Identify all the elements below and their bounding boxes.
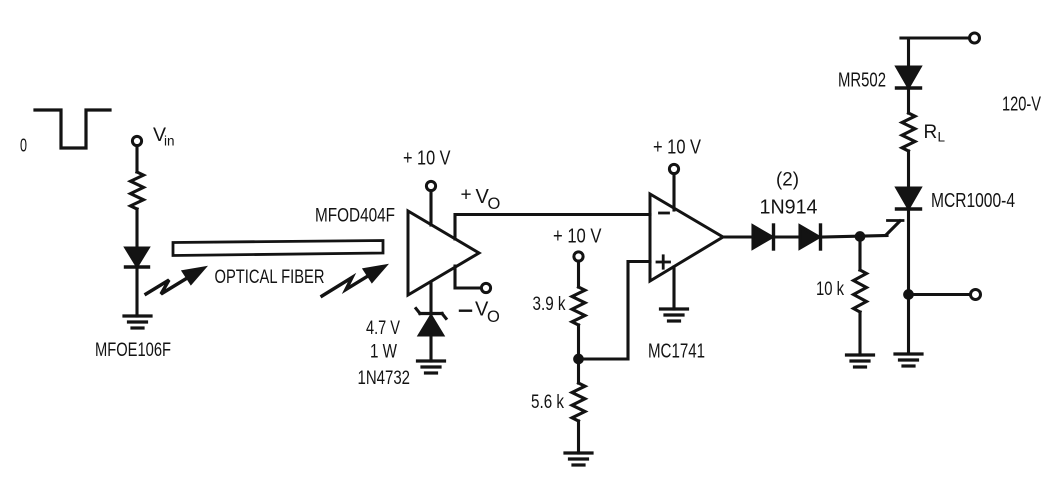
svg-text:O: O <box>488 195 501 213</box>
svg-text:+ 10 V: + 10 V <box>403 148 451 170</box>
light arrow from LED <box>146 268 204 294</box>
svg-text:O: O <box>487 308 500 326</box>
wire op-amp to ground <box>672 267 675 309</box>
svg-text:OPTICAL FIBER: OPTICAL FIBER <box>215 267 325 288</box>
wire RL to SCR <box>907 151 910 188</box>
(2) label <box>776 170 799 191</box>
svg-text:+ 10 V: + 10 V <box>653 136 702 158</box>
RL label <box>924 122 946 145</box>
wire op-amp output <box>723 235 753 238</box>
+10V label (divider) <box>553 226 602 248</box>
1N4732 label <box>358 368 411 389</box>
ground (5.6k) <box>565 453 592 465</box>
svg-text:3.9 k: 3.9 k <box>533 294 566 315</box>
resistor 3.9k <box>572 287 585 325</box>
MR502 label <box>838 69 886 91</box>
1 W label <box>370 342 397 363</box>
svg-text:(2): (2) <box>776 170 799 191</box>
OPTICAL FIBER label <box>215 267 325 288</box>
-Vo label <box>460 299 500 326</box>
terminal +10V (detector) <box>426 181 435 190</box>
3.9 k label <box>533 294 566 315</box>
detector amplifier U1 MFOD404F triangle <box>408 211 479 295</box>
junction divider node <box>575 355 583 363</box>
wire R1 to LED <box>135 209 138 246</box>
wire +10V to op-amp <box>672 174 675 210</box>
svg-text:L: L <box>938 130 946 145</box>
MCR1000-4 label <box>931 190 1015 212</box>
wire Vin to R1 <box>135 146 138 172</box>
5.6 k label <box>531 392 564 413</box>
svg-text:MR502: MR502 <box>838 69 886 91</box>
wire -Vo tap <box>455 266 481 288</box>
+10V label (detector) <box>403 148 451 170</box>
op-amp minus sign <box>660 212 669 215</box>
terminal Vin <box>132 136 141 145</box>
120-V label <box>1002 93 1041 115</box>
diode D1 1N914 <box>753 225 774 249</box>
svg-text:MC1741: MC1741 <box>648 340 705 362</box>
MFOD404F label <box>315 206 395 227</box>
op-amp U2 MC1741 triangle <box>650 194 723 281</box>
svg-text:+: + <box>461 185 472 206</box>
wire junction to 5.6k <box>577 359 580 383</box>
wire 3.9k to junction <box>577 325 580 359</box>
diode MR502 <box>897 67 921 88</box>
SCR MCR1000-4 <box>897 188 921 209</box>
1N914 label <box>760 197 818 219</box>
zener diode 1N4732 <box>416 309 446 336</box>
wire gate node to 10k <box>858 237 861 271</box>
terminal output <box>971 290 981 300</box>
svg-text:in: in <box>164 134 175 149</box>
svg-text:4.7 V: 4.7 V <box>366 318 400 339</box>
input pulse waveform <box>35 110 110 148</box>
svg-text:0: 0 <box>20 136 27 156</box>
ground (10k) <box>847 355 874 367</box>
resistor RL <box>902 113 915 151</box>
svg-text:10 k: 10 k <box>816 279 844 300</box>
node Vin label <box>153 124 175 149</box>
junction output node <box>905 291 913 299</box>
svg-text:+ 10 V: + 10 V <box>553 226 602 248</box>
svg-text:1N4732: 1N4732 <box>358 368 411 389</box>
MFOE106F label <box>95 340 171 361</box>
10 k label <box>816 279 844 300</box>
svg-text:1N914: 1N914 <box>760 197 818 219</box>
wire +10V to detector <box>429 191 432 225</box>
svg-text:MCR1000-4: MCR1000-4 <box>931 190 1015 212</box>
wire +Vo tap <box>455 215 650 240</box>
wire top supply <box>901 36 969 39</box>
svg-text:120-V: 120-V <box>1002 93 1041 115</box>
wire output node to terminal <box>909 293 971 296</box>
terminal +10V (divider) <box>574 252 583 261</box>
svg-text:5.6 k: 5.6 k <box>531 392 564 413</box>
MC1741 label <box>648 340 705 362</box>
wire detector to zener <box>429 282 432 316</box>
resistor 5.6k <box>572 383 585 421</box>
wire 5.6k to ground <box>577 421 580 453</box>
wire D2 to gate node <box>822 236 887 238</box>
wire junction to op-amp + input <box>579 262 651 360</box>
ground (LED) <box>124 316 151 328</box>
resistor R1 <box>131 172 144 209</box>
svg-text:1 W: 1 W <box>370 342 397 363</box>
LED MFOE106F <box>126 248 149 267</box>
wire 10k to ground <box>858 312 861 355</box>
wire supply to MR502 <box>901 38 909 67</box>
+10V label (op-amp) <box>653 136 702 158</box>
+Vo label <box>461 185 501 213</box>
junction gate node <box>856 233 864 241</box>
light arrow to detector <box>322 266 385 296</box>
terminal +10V (op-amp) <box>669 164 678 173</box>
wire +10V to 3.9k <box>577 261 580 287</box>
wire LED to ground <box>135 267 138 316</box>
op-amp plus sign <box>657 256 670 268</box>
terminal -Vo <box>481 283 490 292</box>
SCR gate lead <box>886 221 903 236</box>
ground (SCR) <box>895 354 922 366</box>
svg-text:R: R <box>924 122 938 143</box>
svg-text:MFOE106F: MFOE106F <box>95 340 171 361</box>
wire zener to ground <box>429 335 432 361</box>
4.7 V label <box>366 318 400 339</box>
optical fiber <box>173 241 383 256</box>
ground (zener) <box>418 361 445 373</box>
node 0 label <box>20 136 27 156</box>
wire MR502 to RL <box>907 88 910 113</box>
svg-text:MFOD404F: MFOD404F <box>315 206 395 227</box>
resistor 10k <box>854 270 867 312</box>
wire SCR cathode down <box>907 210 910 354</box>
ground (op-amp) <box>661 309 688 321</box>
diode D2 1N914 <box>800 225 821 249</box>
wire D1 to D2 <box>775 235 800 238</box>
terminal top supply <box>970 33 980 43</box>
